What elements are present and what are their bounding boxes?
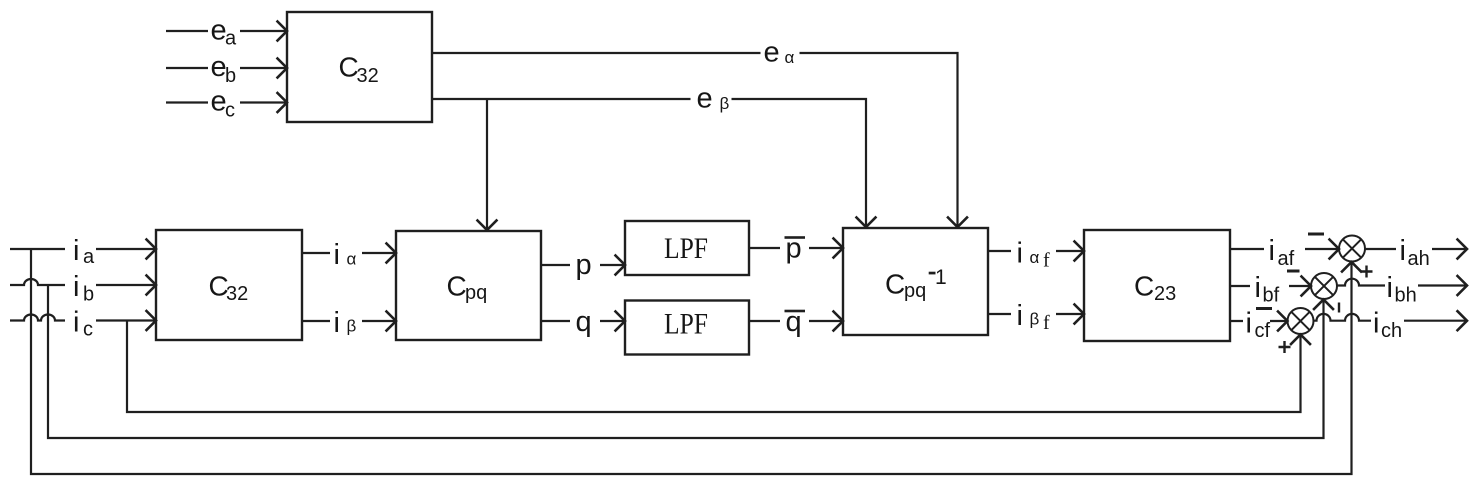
svg-text:e: e <box>764 37 780 69</box>
svg-text:i: i <box>1246 308 1252 340</box>
svg-text:23: 23 <box>1154 283 1176 305</box>
svg-text:LPF: LPF <box>664 308 708 341</box>
svg-text:q: q <box>576 306 592 338</box>
svg-text:pq: pq <box>465 282 487 304</box>
svg-text:i: i <box>73 307 79 339</box>
svg-text:32: 32 <box>226 283 248 305</box>
svg-text:i: i <box>1269 235 1275 267</box>
svg-text:e: e <box>697 83 713 115</box>
svg-text:c: c <box>225 100 235 122</box>
svg-text:a: a <box>83 246 95 268</box>
svg-text:af: af <box>1278 248 1295 270</box>
svg-text:i: i <box>1373 308 1379 340</box>
svg-text:β: β <box>720 94 730 113</box>
svg-text:cf: cf <box>1255 320 1271 342</box>
svg-text:α: α <box>1030 248 1040 267</box>
svg-text:i: i <box>1387 272 1393 304</box>
svg-text:i: i <box>1017 300 1023 332</box>
svg-text:LPF: LPF <box>664 232 708 265</box>
svg-text:ah: ah <box>1408 248 1430 270</box>
svg-text:i: i <box>334 307 340 339</box>
svg-text:i: i <box>1017 238 1023 270</box>
svg-text:a: a <box>225 28 237 50</box>
svg-text:i: i <box>1400 235 1406 267</box>
svg-text:bh: bh <box>1395 285 1417 307</box>
svg-text:i: i <box>1255 272 1261 304</box>
svg-text:bf: bf <box>1263 285 1280 307</box>
svg-text:pq: pq <box>904 280 926 302</box>
svg-text:b: b <box>83 284 94 306</box>
svg-text:i: i <box>73 235 79 267</box>
svg-text:β: β <box>347 317 357 336</box>
svg-text:c: c <box>83 319 93 341</box>
svg-text:C: C <box>447 271 467 302</box>
svg-text:32: 32 <box>357 65 379 87</box>
svg-text:i: i <box>73 271 79 303</box>
svg-text:α: α <box>347 250 357 269</box>
svg-text:p: p <box>576 249 592 281</box>
svg-text:C: C <box>885 269 905 300</box>
svg-text:C: C <box>1134 270 1154 301</box>
svg-text:α: α <box>785 48 795 67</box>
svg-text:1: 1 <box>935 266 947 289</box>
svg-text:β: β <box>1030 310 1040 329</box>
svg-text:i: i <box>334 239 340 271</box>
svg-text:b: b <box>225 65 236 87</box>
svg-text:f: f <box>1043 312 1050 334</box>
svg-text:f: f <box>1043 250 1050 272</box>
svg-text:ch: ch <box>1381 320 1402 342</box>
